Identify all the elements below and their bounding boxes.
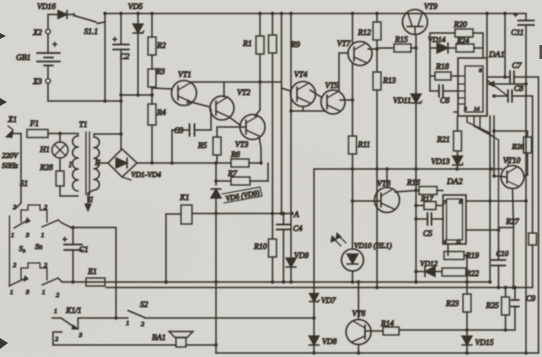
zener diode VD11 <box>393 35 422 191</box>
terminal X2 <box>32 15 50 38</box>
wire rail 467 <box>465 256 468 295</box>
svg-text:S2: S2 <box>140 300 148 309</box>
led VD10 (HL1) <box>331 233 392 271</box>
transistor VT9 <box>403 2 438 35</box>
svg-text:R17: R17 <box>420 194 433 203</box>
wire rail 318 <box>145 316 316 319</box>
transistor VT3 <box>235 115 265 150</box>
wire T1 primary top <box>77 134 79 137</box>
diode VD8 <box>309 303 337 354</box>
resistor R24 <box>449 36 483 52</box>
resistor R4 <box>148 104 166 125</box>
svg-text:VT3: VT3 <box>235 140 248 149</box>
diode VD16 <box>37 2 74 19</box>
node A <box>290 210 299 219</box>
svg-text:VD11: VD11 <box>393 96 411 105</box>
transistor VT10 <box>501 156 524 189</box>
svg-text:K1/1: K1/1 <box>65 306 82 315</box>
capacitor C8 <box>492 84 532 102</box>
svg-text:VD5: VD5 <box>128 2 143 11</box>
wire DA1 output arrow <box>487 82 528 87</box>
svg-text:R26: R26 <box>511 142 524 151</box>
node bus-R9 <box>271 12 274 15</box>
svg-text:220V: 220V <box>2 151 19 160</box>
capacitor C7 <box>487 61 539 83</box>
bridge rectifier VD1-VD4 <box>108 149 161 180</box>
node C2-battery wire <box>119 99 122 102</box>
resistor R15 <box>377 35 416 52</box>
terminal X3 <box>32 66 50 87</box>
wire rail 282 <box>62 280 490 283</box>
svg-text:X1: X1 <box>7 115 17 124</box>
svg-text:R23: R23 <box>445 299 459 308</box>
svg-text:R27: R27 <box>505 217 520 226</box>
diode VD15 <box>462 336 494 353</box>
resistor E1 <box>86 267 105 286</box>
resistor R27 <box>505 217 537 245</box>
node VD5-R3 wire <box>136 93 139 96</box>
svg-text:R20: R20 <box>453 20 467 29</box>
wire VT1 collector <box>191 80 281 83</box>
wire speaker to riser <box>186 344 216 346</box>
node bus-S1.1 <box>103 12 106 15</box>
resistor R14 <box>365 319 399 335</box>
wire VT10 emitter chain <box>499 189 514 288</box>
wire S1.1 column <box>103 22 106 103</box>
node bus-VT7 <box>351 12 354 15</box>
resistor R16 <box>406 178 443 195</box>
svg-text:R16: R16 <box>406 178 420 187</box>
node rail287 C9 <box>504 286 517 289</box>
resistor R23 <box>445 294 471 336</box>
label VD6 (VD9) <box>222 187 262 203</box>
svg-text:VD9: VD9 <box>294 251 309 260</box>
svg-text:C9: C9 <box>526 294 535 303</box>
svg-text:R4: R4 <box>156 108 166 117</box>
wire VT4 base column <box>282 14 291 214</box>
wire R2-R3 <box>151 55 153 69</box>
svg-text:1: 1 <box>54 308 57 315</box>
diode VD6 <box>211 163 221 284</box>
svg-text:9: 9 <box>464 107 467 113</box>
resistor R3 <box>148 67 165 87</box>
svg-text:Sп: Sп <box>35 242 43 251</box>
capacitor C2 <box>112 14 129 102</box>
wire VT4 emitter rail <box>289 107 326 113</box>
svg-text:VD10 (HL1): VD10 (HL1) <box>354 241 392 250</box>
diode VD12 <box>416 259 442 277</box>
svg-text:R28: R28 <box>39 163 53 172</box>
wire VT1 base <box>152 88 172 89</box>
wire rail 287.5 <box>106 286 533 289</box>
wire DA1 fan 2 <box>474 116 494 137</box>
resistor R18 <box>430 62 458 80</box>
node bus-R12 <box>375 12 378 15</box>
resistor R25 <box>485 288 510 331</box>
svg-text:1: 1 <box>11 232 14 239</box>
svg-text:X3: X3 <box>32 77 42 86</box>
svg-text:R11: R11 <box>357 140 370 149</box>
speaker BA1 <box>152 332 193 348</box>
wire VT3 emitter <box>259 136 263 165</box>
resistor R11 <box>349 100 371 249</box>
wire VT8 collector <box>385 167 388 187</box>
wire DA1 bottom rails <box>488 116 495 284</box>
svg-text:7: 7 <box>444 200 447 206</box>
wire main rail 163 <box>137 162 231 164</box>
svg-text:VT6: VT6 <box>352 309 365 318</box>
wire VT8 emitter <box>395 189 418 192</box>
capacitor C11 <box>511 10 534 353</box>
wire bridge top <box>121 148 122 150</box>
switch S1.1 <box>74 14 105 37</box>
resistor R6 <box>230 150 261 167</box>
lamp H1 <box>39 134 68 159</box>
diode VD9 <box>286 214 309 284</box>
wire bus to C7 <box>503 14 506 79</box>
transistor VT5 <box>321 81 345 114</box>
resistor R12 <box>357 14 381 73</box>
wire VT2 collector <box>223 82 225 97</box>
switch bank S1 row1 <box>10 204 63 286</box>
wire DA1 branch right rail <box>482 33 484 58</box>
svg-text:VT9: VT9 <box>424 2 437 11</box>
wire T1 secondary tap arrow <box>85 190 94 211</box>
svg-text:R6: R6 <box>230 150 240 159</box>
wire C7 right rail <box>538 77 540 353</box>
switch S2 <box>126 300 148 328</box>
svg-text:R7: R7 <box>227 169 238 178</box>
wire F1 to T1 <box>48 132 78 135</box>
svg-text:VD12: VD12 <box>420 259 438 268</box>
resistor R19 <box>444 244 479 260</box>
wire battery to node <box>48 84 121 102</box>
wire X1 down <box>15 134 21 210</box>
svg-text:VT4: VT4 <box>294 70 307 79</box>
resistor R26 <box>494 131 532 176</box>
svg-text:C6: C6 <box>440 96 449 105</box>
wire rail 169 <box>314 167 502 170</box>
svg-text:1: 1 <box>126 320 129 327</box>
svg-text:X2: X2 <box>32 28 42 37</box>
svg-text:8: 8 <box>459 200 462 206</box>
svg-text:S1.1: S1.1 <box>84 27 98 36</box>
capacitor C5 <box>414 213 443 238</box>
wire C3 down <box>170 130 173 165</box>
edge artifact marks <box>0 33 6 39</box>
resistor R1 <box>242 14 264 55</box>
svg-text:R10: R10 <box>253 242 267 251</box>
svg-text:VT5: VT5 <box>325 81 338 90</box>
svg-text:14: 14 <box>474 106 480 113</box>
wire bottom bus <box>216 351 539 354</box>
wire riser 216 <box>214 281 217 353</box>
wire speaker feed <box>53 344 176 346</box>
wire VT4 collector to VT5 base <box>310 90 321 97</box>
svg-text:VD7: VD7 <box>321 296 337 305</box>
svg-text:C10: C10 <box>496 249 509 258</box>
resistor R21 <box>436 112 462 151</box>
wire top supply bus <box>105 13 526 15</box>
capacitor C6 <box>430 85 458 105</box>
svg-text:4: 4 <box>444 238 447 245</box>
wire VT5 emitter <box>340 98 354 101</box>
transistor VT8 <box>375 179 400 213</box>
relay coil K1 <box>179 193 192 224</box>
zener diode VD5 <box>128 2 144 95</box>
relay contact K1/1 <box>52 306 83 345</box>
svg-text:C7: C7 <box>512 61 522 70</box>
svg-text:R25: R25 <box>485 301 499 310</box>
svg-text:R1: R1 <box>242 39 252 48</box>
svg-text:GB1: GB1 <box>16 53 31 62</box>
svg-text:C11: C11 <box>511 28 524 37</box>
svg-text:VD13: VD13 <box>431 157 450 166</box>
resistor R22 <box>442 268 479 278</box>
svg-text:+: + <box>112 35 117 44</box>
svg-text:F1: F1 <box>29 119 39 128</box>
wire switch to 116 rail <box>62 223 118 320</box>
wire rail 330 <box>399 328 515 331</box>
wire VT10 base <box>492 174 507 177</box>
svg-text:8: 8 <box>479 68 482 74</box>
svg-text:C4: C4 <box>293 224 302 233</box>
transistor VT1 <box>172 70 197 106</box>
transistor VT2 <box>210 88 250 120</box>
svg-text:50Hz: 50Hz <box>2 161 18 170</box>
wire T1 secondary top <box>94 134 121 137</box>
ic DA2 <box>443 176 466 245</box>
transistor VT7 <box>337 14 372 101</box>
capacitor C1 <box>62 228 88 284</box>
svg-text:+: + <box>513 10 518 19</box>
node bus-R1 <box>258 12 261 15</box>
battery GB1 <box>16 34 60 66</box>
wire K1 left <box>164 214 181 284</box>
svg-text:C5: C5 <box>423 229 432 238</box>
svg-text:K1: K1 <box>179 193 189 202</box>
wire VT3 base to R5 <box>217 127 246 137</box>
capacitor C3 <box>172 109 211 136</box>
resistor R28 <box>39 158 78 196</box>
wire K1 right rail213 <box>192 212 292 215</box>
svg-text:VT8: VT8 <box>377 179 390 188</box>
capacitor C9 <box>511 288 535 331</box>
svg-text:1: 1 <box>41 232 44 239</box>
svg-text:I: I <box>68 160 72 169</box>
wire DA1 fan 3 <box>480 116 499 230</box>
node bus-VT4base <box>280 12 283 15</box>
resistor R17 <box>414 194 443 210</box>
svg-text:S1: S1 <box>20 179 28 188</box>
svg-text:DA2: DA2 <box>446 176 463 186</box>
label 220V 50Hz <box>2 151 19 170</box>
resistor R2 <box>148 14 166 56</box>
resistor R9 <box>269 14 300 54</box>
svg-text:R15: R15 <box>394 35 408 44</box>
wire R3-R4 junction <box>150 87 153 104</box>
wire R5 to rail163 <box>214 155 217 165</box>
svg-text:II: II <box>87 196 93 204</box>
resistor R10 <box>253 214 277 284</box>
terminal X1 arrow <box>6 115 21 138</box>
wire contact rail 318 <box>78 317 128 319</box>
wire T1 center tap <box>97 162 108 164</box>
svg-text:+: + <box>52 40 57 49</box>
svg-text:R12: R12 <box>357 28 371 37</box>
ic DA1 <box>458 49 505 116</box>
node bus-R2 <box>150 12 153 15</box>
svg-text:R21: R21 <box>436 135 450 144</box>
node bus-VD5 <box>136 12 139 15</box>
wire bus to DA1 <box>486 14 488 59</box>
label S1 <box>20 179 28 188</box>
zener diode VD13 <box>431 151 463 169</box>
svg-text:VD16: VD16 <box>37 2 56 11</box>
svg-text:R3: R3 <box>155 67 165 76</box>
svg-text:1: 1 <box>42 289 45 296</box>
resistor R5 <box>197 137 221 155</box>
svg-text:T1: T1 <box>79 120 87 129</box>
svg-text:VT1: VT1 <box>178 70 191 79</box>
svg-text:R18: R18 <box>435 62 449 71</box>
wire R9 column <box>272 53 274 214</box>
diode VD14 <box>428 35 448 53</box>
wire node95 <box>119 93 153 96</box>
zener diode VD7 <box>310 169 337 305</box>
wire DA1 branch left rail <box>429 33 431 91</box>
node bus-C2 <box>119 12 122 15</box>
transistor VT4 <box>291 70 316 107</box>
svg-text:H1: H1 <box>39 145 50 154</box>
svg-text:VD15: VD15 <box>475 338 494 347</box>
capacitor C10 <box>492 230 509 288</box>
wire VT7 to R12 junction <box>368 47 379 50</box>
capacitor C4 <box>277 214 303 284</box>
svg-text:VD8: VD8 <box>322 337 337 346</box>
svg-text:R2: R2 <box>156 41 166 50</box>
svg-text:DA1: DA1 <box>488 49 505 59</box>
wire DA1 fan 1 <box>467 116 490 133</box>
wire VT2 emitter to VT3 base <box>229 117 240 125</box>
svg-text:E1: E1 <box>87 267 97 276</box>
node bus-R9b <box>289 12 292 15</box>
wire VT7 base link <box>339 53 348 90</box>
svg-text:R24: R24 <box>456 36 469 45</box>
svg-text:C8: C8 <box>514 84 523 93</box>
fuse F1 <box>27 119 48 138</box>
svg-text:VD1-VD4: VD1-VD4 <box>131 170 161 179</box>
svg-text:VT2: VT2 <box>237 88 250 97</box>
label S3 Sn <box>19 242 43 253</box>
wire DA2 pin right 230 <box>466 228 500 231</box>
resistor R7 <box>214 163 268 185</box>
wire VD10 bottom <box>351 271 354 284</box>
wire C8 right rail <box>532 96 534 288</box>
transistor VT6 <box>346 280 371 353</box>
svg-text:VT7: VT7 <box>337 39 351 48</box>
transformer T1 <box>68 120 100 195</box>
wire DA1 to C8 diagonal <box>487 80 507 96</box>
svg-text:R14: R14 <box>380 319 394 328</box>
resistor R20 <box>430 20 483 37</box>
node bus-DA1 <box>485 12 488 15</box>
wire VT8 base <box>353 200 382 202</box>
node bus-C7 <box>503 12 506 15</box>
switch bank S1 row2 <box>9 262 62 299</box>
svg-text:R5: R5 <box>197 141 207 150</box>
svg-text:11: 11 <box>456 239 461 245</box>
svg-text:C3: C3 <box>174 126 183 135</box>
svg-text:1: 1 <box>10 289 13 296</box>
svg-text:BA1: BA1 <box>152 333 166 342</box>
wire column 291 <box>290 14 292 214</box>
svg-text:VD14: VD14 <box>428 35 446 44</box>
wire R1 to VT3 <box>255 54 260 116</box>
svg-text:R13: R13 <box>382 76 396 85</box>
resistor R13 <box>373 72 396 289</box>
svg-text:A: A <box>293 210 299 219</box>
wire VT1 emitter to VT2 base <box>191 102 210 107</box>
wire C2 column to bridge <box>119 101 122 149</box>
wire DA2 left rail <box>414 191 417 284</box>
svg-text:+: + <box>62 235 67 244</box>
svg-text:C1: C1 <box>79 245 88 254</box>
svg-text:C2: C2 <box>120 52 129 61</box>
wire DA2 pin right 201 <box>466 199 528 202</box>
svg-text:VT10: VT10 <box>503 156 520 165</box>
wire R4 to rail163 <box>150 125 153 165</box>
svg-text:S₃: S₃ <box>19 244 26 253</box>
